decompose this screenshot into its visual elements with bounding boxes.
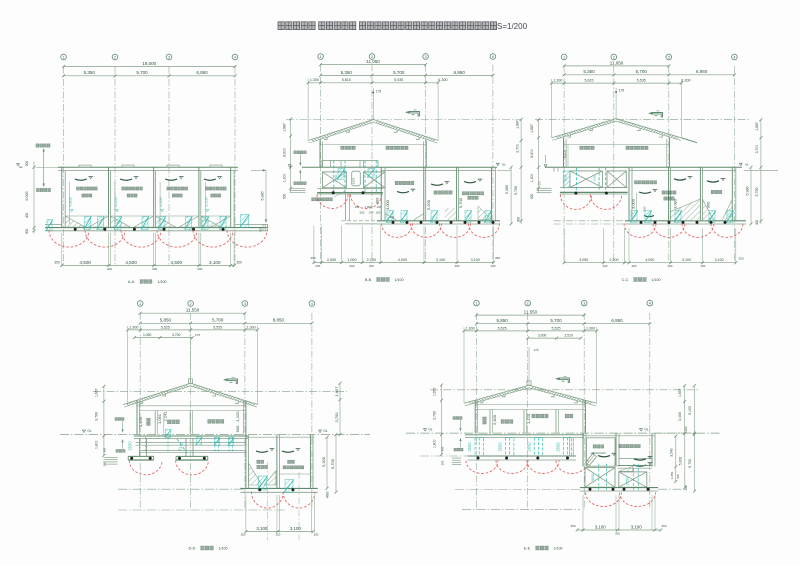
svg-text:3,100: 3,100 [290, 526, 302, 531]
svg-text:350: 350 [570, 524, 575, 528]
svg-text:350: 350 [310, 256, 315, 260]
svg-text:200: 200 [152, 267, 157, 271]
svg-text:1,050: 1,050 [143, 333, 152, 337]
tank base slab A [45, 227, 268, 229]
interior D [137, 405, 246, 407]
svg-text:4,500: 4,500 [79, 260, 91, 265]
svg-text:500: 500 [530, 194, 534, 200]
svg-text:2,700: 2,700 [515, 144, 519, 153]
svg-text:5,163: 5,163 [688, 406, 692, 415]
svg-text:4: 4 [311, 302, 313, 306]
bottom dims C [563, 228, 565, 264]
pile cap B left [317, 188, 383, 190]
svg-text:6,700: 6,700 [330, 458, 335, 469]
svg-text:200: 200 [107, 267, 112, 271]
svg-text:5,750: 5,750 [755, 188, 759, 197]
svg-text:5,525: 5,525 [498, 326, 507, 330]
grid lines D [139, 313, 141, 510]
manhole tabs A [79, 165, 91, 167]
svg-text:200: 200 [314, 532, 319, 536]
svg-text:5,700: 5,700 [636, 69, 648, 74]
svg-text:5,350: 5,350 [84, 70, 96, 75]
svg-text:400: 400 [517, 217, 521, 223]
svg-text:5,525: 5,525 [161, 325, 170, 329]
svg-text:3,000: 3,000 [631, 198, 636, 209]
svg-text:2650: 2650 [564, 174, 568, 181]
walls D [136, 400, 138, 434]
svg-text:S=1/200: S=1/200 [497, 22, 528, 31]
svg-text:200: 200 [668, 264, 673, 268]
svg-text:GL: GL [19, 165, 23, 169]
svg-text:5,700: 5,700 [212, 318, 224, 323]
svg-text:350: 350 [738, 256, 743, 260]
svg-text:1: 1 [563, 55, 565, 59]
svg-text:5,525: 5,525 [552, 326, 561, 330]
svg-text:1,887: 1,887 [282, 123, 286, 132]
red arcs A [49, 230, 89, 247]
svg-text:5,380: 5,380 [261, 192, 265, 201]
svg-text:3,000: 3,000 [538, 334, 547, 338]
svg-text:400: 400 [103, 447, 107, 452]
svg-text:GL: GL [87, 429, 91, 433]
svg-text:6,950: 6,950 [611, 318, 623, 323]
level ref lines D [118, 488, 245, 490]
arrow E [560, 378, 570, 382]
svg-text:3,700: 3,700 [755, 145, 759, 154]
svg-text:4,000: 4,000 [159, 197, 163, 207]
svg-text:175: 175 [538, 181, 542, 186]
svg-text:1,657: 1,657 [433, 387, 437, 396]
svg-text:250: 250 [241, 532, 246, 536]
floor slab D [134, 435, 248, 437]
svg-text:1/100: 1/100 [652, 278, 661, 282]
svg-text:2650: 2650 [498, 442, 503, 452]
svg-text:4,500: 4,500 [125, 260, 137, 265]
floor line C [545, 166, 742, 168]
roof C [556, 120, 614, 138]
svg-text:350: 350 [236, 261, 242, 265]
svg-text:5,700: 5,700 [550, 318, 562, 323]
svg-text:5,300: 5,300 [321, 456, 326, 467]
svg-text:2,200: 2,200 [610, 258, 619, 262]
svg-text:2650: 2650 [593, 174, 597, 181]
side dims E [441, 385, 443, 455]
svg-text:1,300: 1,300 [682, 79, 691, 83]
svg-text:18,000: 18,000 [142, 61, 156, 66]
room labels C [580, 146, 594, 149]
support boxes E [585, 468, 615, 488]
svg-text:500: 500 [25, 161, 29, 167]
svg-text:2650: 2650 [555, 442, 560, 452]
svg-text:4,500: 4,500 [171, 260, 183, 265]
svg-text:175: 175 [376, 90, 382, 94]
roof B [311, 121, 371, 141]
svg-text:175: 175 [195, 333, 200, 337]
svg-text:3,100: 3,100 [204, 197, 208, 207]
red arcs B [382, 223, 413, 237]
svg-text:2650: 2650 [591, 474, 595, 482]
grid circles E [474, 300, 480, 306]
svg-text:2650: 2650 [467, 442, 472, 452]
bottom dims D [245, 495, 247, 533]
cells B [397, 192, 409, 193]
svg-text:5,750: 5,750 [514, 186, 518, 195]
svg-text:1: 1 [320, 55, 322, 59]
svg-text:5,850: 5,850 [496, 318, 508, 323]
svg-text:150: 150 [355, 205, 360, 209]
svg-text:150: 150 [369, 211, 374, 215]
svg-text:3,100: 3,100 [256, 526, 268, 531]
svg-text:5,700: 5,700 [393, 70, 405, 75]
svg-text:C-C: C-C [622, 278, 629, 282]
svg-text:4,800: 4,800 [69, 197, 73, 207]
svg-text:1,657: 1,657 [334, 386, 339, 397]
svg-text:2: 2 [190, 302, 192, 306]
svg-text:200: 200 [315, 264, 320, 268]
svg-text:3,100: 3,100 [471, 258, 480, 262]
GL line E [406, 432, 720, 434]
svg-text:200: 200 [369, 264, 374, 268]
svg-text:8,600: 8,600 [282, 148, 286, 157]
svg-text:5,535: 5,535 [394, 78, 403, 82]
svg-text:200: 200 [615, 532, 620, 536]
svg-text:1,887: 1,887 [530, 124, 534, 133]
svg-text:6: 6 [492, 55, 494, 59]
svg-text:1,887: 1,887 [755, 122, 759, 131]
svg-text:6,950: 6,950 [196, 70, 208, 75]
svg-text:GL: GL [502, 163, 506, 167]
svg-text:1,050: 1,050 [365, 205, 372, 209]
svg-text:400: 400 [25, 213, 29, 219]
left structure B: braced boxes [323, 172, 347, 188]
grid circles A [61, 54, 67, 60]
svg-text:2,110: 2,110 [352, 177, 356, 184]
svg-text:200: 200 [197, 267, 202, 271]
svg-text:6,000: 6,000 [25, 192, 29, 201]
svg-text:175: 175 [619, 88, 625, 92]
svg-text:2650: 2650 [626, 477, 630, 485]
svg-text:3,100: 3,100 [715, 258, 724, 262]
right tank E [582, 433, 584, 466]
svg-text:B-B: B-B [365, 278, 372, 282]
ground beams D [136, 442, 246, 444]
floor line B [302, 166, 497, 168]
cyan hatches C [631, 211, 637, 223]
svg-text:1/100: 1/100 [219, 547, 228, 551]
dims E top [477, 314, 585, 316]
svg-text:200: 200 [276, 532, 281, 536]
svg-text:300: 300 [684, 426, 688, 431]
room labels B [341, 146, 355, 149]
svg-text:3: 3 [425, 55, 427, 59]
svg-text:175: 175 [533, 348, 538, 352]
svg-text:400: 400 [684, 485, 688, 490]
cyan hatches B [387, 211, 393, 223]
red arcs E tank [586, 493, 622, 507]
svg-text:4,000: 4,000 [645, 258, 654, 262]
svg-text:300: 300 [25, 229, 29, 235]
svg-text:200: 200 [455, 264, 460, 268]
cells D [256, 451, 268, 452]
floor slab E [465, 434, 584, 436]
svg-text:1,300: 1,300 [530, 174, 534, 183]
svg-text:6,950: 6,950 [454, 70, 466, 75]
svg-text:200: 200 [701, 264, 706, 268]
level ref lines E [420, 455, 468, 457]
svg-text:1: 1 [139, 302, 141, 306]
svg-text:1,300: 1,300 [310, 78, 319, 82]
arrow D [228, 379, 238, 383]
svg-text:3,100: 3,100 [631, 524, 643, 529]
level line D [93, 391, 347, 393]
side annotations B left [290, 119, 292, 193]
svg-text:3,100: 3,100 [209, 260, 221, 265]
grid lines E [476, 313, 478, 510]
main tank C [628, 167, 630, 221]
svg-text:2,510: 2,510 [564, 334, 573, 338]
svg-text:4: 4 [733, 55, 735, 59]
svg-text:3,700: 3,700 [334, 412, 339, 423]
svg-text:2,141: 2,141 [162, 411, 167, 422]
dims B top [321, 64, 426, 66]
tank outline A [58, 166, 238, 168]
side dims D [103, 386, 105, 455]
grid lines C [563, 66, 565, 262]
svg-text:5,350: 5,350 [341, 70, 353, 75]
svg-text:5,350: 5,350 [583, 69, 595, 74]
svg-text:5,615: 5,615 [342, 78, 351, 82]
svg-text:1,300: 1,300 [129, 325, 138, 329]
svg-text:400: 400 [325, 491, 330, 498]
roof E [469, 387, 527, 404]
svg-text:1/100: 1/100 [554, 547, 563, 551]
svg-text:1,300: 1,300 [466, 326, 475, 330]
svg-text:11,550: 11,550 [524, 310, 538, 315]
right tank D [245, 435, 247, 489]
interior E [475, 404, 585, 406]
svg-text:400: 400 [755, 220, 759, 226]
svg-text:5,200: 5,200 [678, 457, 682, 466]
grid lines A [63, 67, 65, 267]
svg-text:1,650: 1,650 [670, 471, 674, 479]
left shallow structure B: plinth [322, 161, 378, 168]
red arcs E footings [466, 461, 498, 474]
level lines C left [554, 220, 629, 222]
svg-text:3,100: 3,100 [595, 524, 607, 529]
grid circles B [318, 54, 324, 60]
right annotations A [251, 169, 266, 171]
svg-text:11,050: 11,050 [610, 60, 624, 65]
black dots A [74, 228, 77, 231]
svg-text:3,100: 3,100 [563, 150, 567, 159]
svg-text:1,300: 1,300 [439, 78, 448, 82]
bottom dims B [313, 226, 315, 264]
svg-text:350: 350 [54, 261, 60, 265]
svg-text:600: 600 [235, 425, 240, 432]
svg-text:500: 500 [282, 194, 286, 200]
svg-text:5,380: 5,380 [746, 187, 750, 196]
svg-text:200: 200 [632, 264, 637, 268]
svg-text:2650: 2650 [334, 174, 338, 181]
svg-text:1,120: 1,120 [526, 413, 531, 424]
svg-text:8,850: 8,850 [273, 318, 285, 323]
svg-text:3,100: 3,100 [436, 258, 445, 262]
svg-text:2,200: 2,200 [367, 258, 376, 262]
svg-text:5,535: 5,535 [637, 79, 646, 83]
svg-text:150: 150 [376, 211, 381, 215]
red arcs D tank [251, 492, 283, 509]
svg-text:4: 4 [649, 302, 651, 306]
svg-text:5,850: 5,850 [160, 318, 172, 323]
svg-text:5,615: 5,615 [585, 79, 594, 83]
svg-text:1,300: 1,300 [247, 325, 256, 329]
svg-text:3,050: 3,050 [579, 258, 588, 262]
left shallow structure C [553, 168, 555, 172]
chlorine tank box E [587, 438, 616, 466]
cyan hatches A [85, 217, 91, 230]
foundations D [139, 438, 141, 456]
svg-text:1,300: 1,300 [553, 79, 562, 83]
under-floor strips E [475, 438, 483, 457]
svg-text:600: 600 [360, 211, 365, 215]
svg-text:1,000: 1,000 [347, 258, 356, 262]
svg-text:11,550: 11,550 [186, 308, 200, 313]
roof D [126, 385, 188, 406]
svg-text:1,800: 1,800 [433, 439, 437, 448]
side annotations C left [538, 120, 540, 193]
svg-text:400: 400 [375, 197, 380, 204]
arrow B [410, 112, 420, 116]
red arcs C [624, 223, 656, 237]
svg-text:400: 400 [441, 446, 445, 451]
dims D top [140, 312, 245, 314]
svg-text:6,700: 6,700 [688, 459, 692, 468]
cyan hatches D tank [259, 476, 267, 490]
svg-text:GL: GL [745, 163, 749, 167]
svg-text:3,100: 3,100 [682, 258, 691, 262]
svg-text:3,400: 3,400 [678, 412, 682, 421]
svg-text:1,300: 1,300 [282, 174, 286, 183]
svg-text:300: 300 [259, 227, 263, 232]
svg-text:1,887: 1,887 [515, 120, 519, 129]
svg-text:200: 200 [349, 264, 354, 268]
cyan dashes B left [333, 161, 335, 193]
svg-text:3,700: 3,700 [95, 412, 99, 421]
svg-text:4,000: 4,000 [114, 197, 118, 207]
arrow C [653, 113, 663, 117]
svg-text:1,800: 1,800 [95, 440, 99, 449]
svg-text:3,080: 3,080 [673, 198, 678, 209]
svg-text:1,495: 1,495 [138, 416, 143, 427]
cells C [634, 181, 656, 184]
svg-text:GL: GL [644, 428, 648, 432]
svg-text:200: 200 [603, 264, 608, 268]
svg-text:1,657: 1,657 [678, 388, 682, 397]
ridge level line B [286, 119, 521, 121]
walls B [319, 141, 321, 168]
dims C top [564, 65, 669, 67]
svg-text:1,300: 1,300 [586, 326, 595, 330]
svg-text:2: 2 [613, 55, 615, 59]
bottom dims E [582, 495, 584, 531]
svg-text:4,000: 4,000 [398, 258, 407, 262]
svg-text:2,400: 2,400 [492, 414, 497, 425]
svg-text:1/100: 1/100 [395, 278, 404, 282]
page title [278, 22, 284, 30]
walls E [474, 400, 476, 433]
svg-text:300: 300 [441, 460, 445, 465]
grid circles D [137, 301, 143, 307]
svg-text:11,050: 11,050 [366, 59, 380, 64]
level line E [430, 389, 700, 391]
dots C [640, 221, 643, 224]
svg-text:3,700: 3,700 [172, 333, 181, 337]
svg-text:2650: 2650 [526, 442, 531, 452]
svg-text:6,950: 6,950 [696, 69, 708, 74]
grid circles C [561, 54, 567, 60]
svg-text:2650: 2650 [128, 441, 133, 451]
bottom dims A [61, 233, 63, 267]
walls C [563, 138, 565, 168]
svg-text:4: 4 [234, 55, 236, 59]
main tank B [380, 167, 382, 221]
svg-text:1/100: 1/100 [158, 280, 167, 284]
svg-text:300: 300 [676, 474, 680, 479]
cell details A [75, 179, 87, 180]
svg-text:1,657: 1,657 [95, 388, 99, 397]
ridge level line C [535, 119, 750, 121]
dims A top [64, 66, 236, 68]
svg-text:2: 2 [527, 302, 529, 306]
svg-text:3: 3 [583, 302, 585, 306]
svg-text:5,200: 5,200 [426, 199, 431, 210]
svg-text:5,700: 5,700 [458, 197, 463, 208]
svg-text:3,540: 3,540 [669, 448, 673, 457]
svg-text:3: 3 [668, 55, 670, 59]
svg-text:5,380: 5,380 [505, 185, 509, 194]
svg-text:1: 1 [476, 302, 478, 306]
svg-text:3,000: 3,000 [385, 199, 390, 210]
svg-text:1,120: 1,120 [235, 411, 240, 422]
GL line D [60, 434, 370, 436]
svg-text:E-E: E-E [524, 547, 531, 551]
left annotations A [36, 144, 50, 147]
svg-text:A-A: A-A [128, 280, 135, 284]
svg-text:GL: GL [428, 428, 432, 432]
svg-text:3: 3 [168, 55, 170, 59]
footing line E [468, 455, 577, 457]
svg-text:3: 3 [244, 302, 246, 306]
svg-text:5,700: 5,700 [136, 70, 148, 75]
svg-text:350: 350 [495, 256, 500, 260]
svg-text:200: 200 [491, 264, 496, 268]
svg-text:2: 2 [114, 55, 116, 59]
svg-text:D-D: D-D [189, 547, 196, 551]
svg-text:1: 1 [63, 55, 65, 59]
svg-text:8,600: 8,600 [530, 149, 534, 158]
svg-text:GL: GL [323, 429, 327, 433]
svg-text:2,550: 2,550 [327, 258, 336, 262]
dots B [392, 221, 395, 224]
grid lines B [320, 65, 322, 263]
svg-text:5,525: 5,525 [213, 325, 222, 329]
svg-text:3,700: 3,700 [433, 411, 437, 420]
svg-text:350: 350 [661, 524, 666, 528]
